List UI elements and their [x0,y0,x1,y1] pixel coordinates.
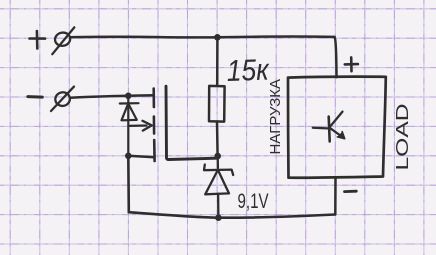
diode D1 body diode [120,96,139,156]
minus label input [28,95,43,99]
minus label load [345,190,357,193]
wire source down leg [127,156,130,212]
plus label input [30,31,46,49]
svg-text:НАГРУЗКА: НАГРУЗКА [268,79,284,155]
wire top rail [71,37,337,78]
input terminal - [51,87,74,111]
node junction zener bottom [215,214,222,221]
transistor Q1 gate bar and gate wire [166,86,218,159]
svg-text:LOAD: LOAD [392,104,412,171]
transistor Q1 arrow [129,121,152,131]
wire resistor top lead [216,37,219,86]
plus label load [345,57,358,71]
wire minus input to transistor [70,95,154,97]
zener diode D2 9.1V [204,156,233,218]
wire load bottom lead [334,178,337,215]
load box [288,77,386,178]
node junction diode top [125,93,132,100]
node junction gate/zener [214,153,221,160]
transistor symbol inside load box [313,112,345,142]
svg-text:9,1V: 9,1V [238,190,269,213]
resistor R1 15k [209,86,225,122]
wire bottom rail [129,212,335,218]
node junction top [214,34,221,41]
wire resistor bottom lead [216,122,219,156]
transistor Q1 channel segments [152,89,156,161]
input terminal + [52,27,74,54]
node junction diode bottom [125,153,132,160]
svg-text:15к: 15к [226,53,271,88]
wire source to junction [128,156,154,157]
